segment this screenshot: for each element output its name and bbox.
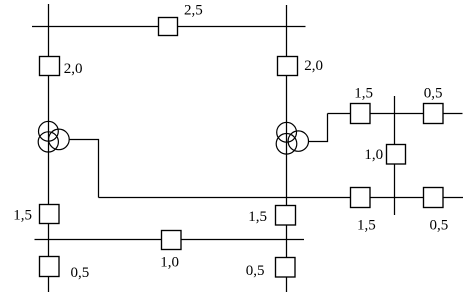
svg-text:1,5: 1,5: [248, 209, 267, 225]
switch 1,5 left feeder: [40, 205, 60, 224]
switch 2,0 left feeder: [40, 57, 60, 76]
svg-text:1,5: 1,5: [354, 86, 373, 102]
svg-text:2,5: 2,5: [184, 2, 203, 18]
wire: left feeder vertical: [48, 4, 50, 292]
switch 0,5 right feeder: [276, 258, 296, 278]
svg-text:1,0: 1,0: [160, 255, 179, 271]
switch 0,5 on bus B: [424, 104, 444, 124]
switch 1,0 on bus D: [162, 231, 182, 250]
svg-text:0,5: 0,5: [424, 86, 443, 102]
switch 0,5 left feeder: [40, 257, 60, 277]
wire: right distribution vertical: [394, 96, 396, 215]
switch 1,5 on bus C: [351, 188, 371, 208]
svg-text:2,0: 2,0: [64, 61, 83, 77]
bus C (lower distribution busbar): [99, 197, 464, 199]
svg-text:1,5: 1,5: [13, 208, 32, 224]
wire: T2 secondary to bus B: [308, 114, 327, 142]
svg-text:1,5: 1,5: [357, 217, 376, 233]
switch 2,0 right feeder: [278, 57, 298, 76]
switch 0,5 on bus C: [424, 188, 444, 208]
transformer T2: [276, 122, 308, 154]
svg-text:0,5: 0,5: [246, 263, 265, 279]
switch 1,5 right feeder: [276, 206, 296, 226]
transformer T1: [38, 121, 69, 152]
svg-text:2,0: 2,0: [304, 58, 323, 74]
svg-text:1,0: 1,0: [364, 147, 383, 163]
bus A (top busbar): [32, 26, 306, 28]
svg-text:0,5: 0,5: [430, 217, 449, 233]
switch 2,5 on bus A: [159, 18, 178, 36]
svg-text:0,5: 0,5: [71, 265, 90, 281]
bus B (upper right busbar): [328, 113, 463, 115]
wire: T1 secondary to bus C: [69, 140, 99, 198]
switch 1,5 on bus B: [351, 104, 371, 124]
bus D (lower left busbar): [35, 239, 305, 241]
wire: right feeder vertical: [286, 5, 288, 292]
switch 1,0 right distribution: [387, 145, 406, 165]
